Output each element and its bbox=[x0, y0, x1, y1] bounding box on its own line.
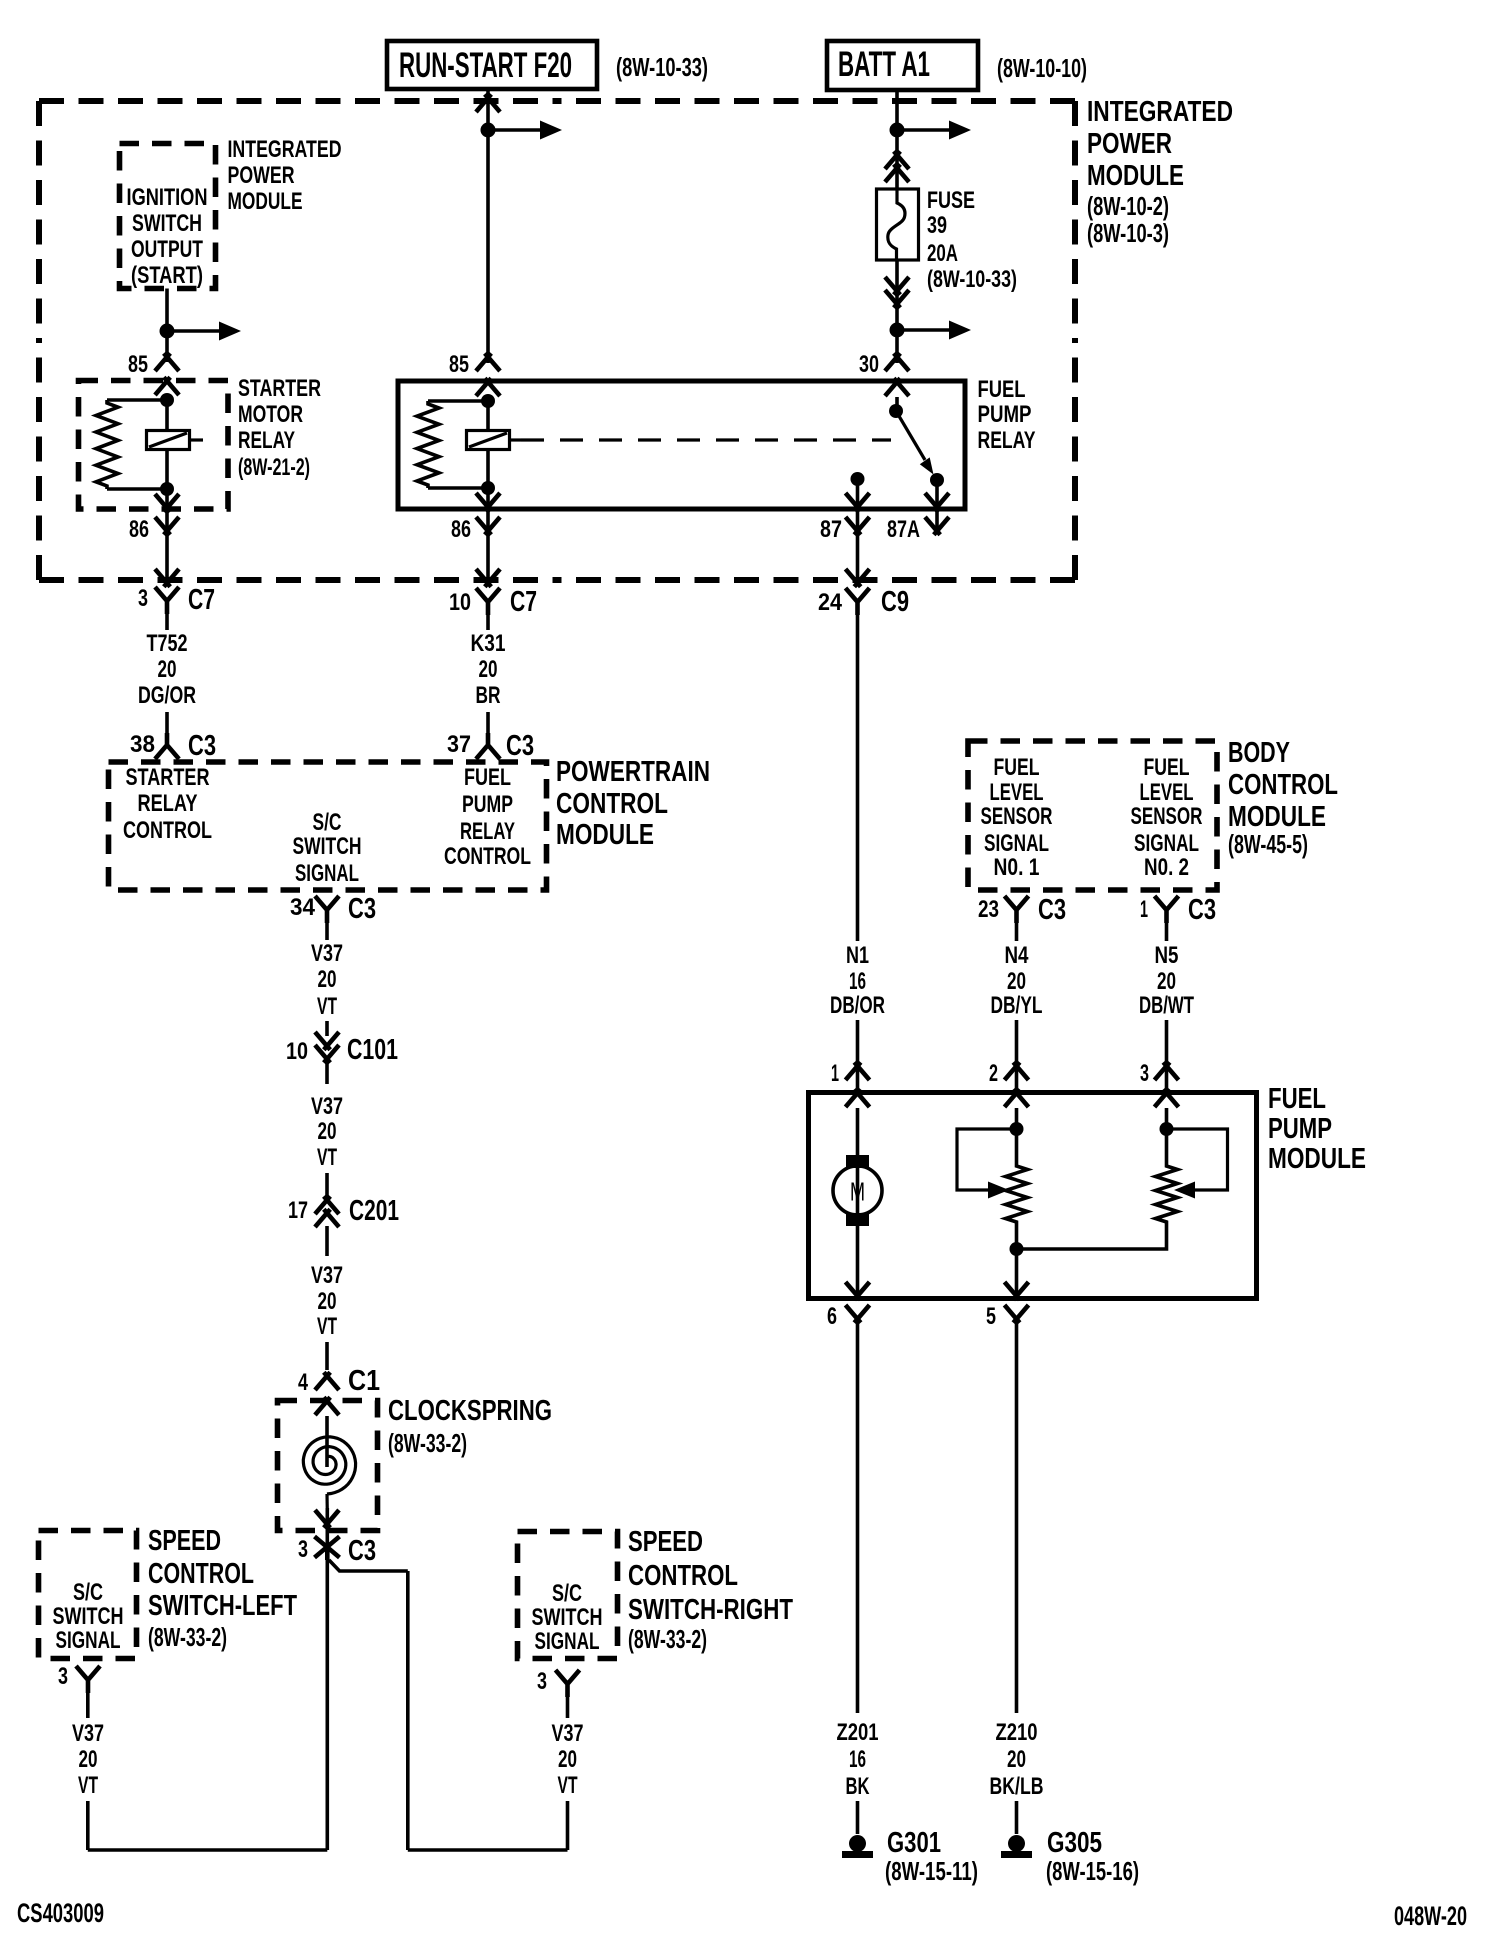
mechanical linkage dashed line bbox=[521, 438, 891, 441]
wire V37 segment to C101 bbox=[325, 1021, 329, 1036]
svg-text:86: 86 bbox=[451, 516, 471, 543]
svg-text:FUEL: FUEL bbox=[994, 754, 1040, 781]
power tag RUN-START F20 box bbox=[387, 41, 597, 89]
wire branch diagonal to right bbox=[329, 1560, 408, 1571]
svg-text:24: 24 bbox=[818, 589, 843, 616]
svg-text:BATT A1: BATT A1 bbox=[838, 45, 930, 84]
junction dot fp relay coil top bbox=[481, 394, 495, 408]
svg-text:39: 39 bbox=[927, 212, 947, 239]
svg-text:SIGNAL: SIGNAL bbox=[1134, 830, 1199, 857]
svg-text:C101: C101 bbox=[347, 1034, 398, 1066]
svg-text:SWITCH: SWITCH bbox=[53, 1603, 124, 1630]
chevron inside fp relay 87A bbox=[925, 493, 940, 511]
connector C3 clockspring symbol bbox=[315, 1537, 340, 1558]
svg-text:MODULE: MODULE bbox=[556, 819, 654, 851]
svg-text:RELAY: RELAY bbox=[138, 790, 198, 817]
inline connector C201 double chevron bbox=[315, 1209, 330, 1227]
arrow chevron at IPM border x167 bbox=[155, 569, 170, 587]
svg-text:POWERTRAIN: POWERTRAIN bbox=[556, 756, 710, 788]
svg-text:5: 5 bbox=[986, 1303, 996, 1330]
chevron inside fp relay bottom left bbox=[476, 493, 491, 511]
svg-text:C7: C7 bbox=[510, 586, 537, 618]
coil slash starter relay bbox=[149, 433, 187, 447]
svg-text:1: 1 bbox=[1140, 896, 1148, 923]
svg-text:10: 10 bbox=[449, 589, 471, 616]
chevron pin 87A below box bbox=[925, 517, 940, 535]
wire T752 lower segment bbox=[165, 712, 169, 736]
chevron inside FPM pin 2 bbox=[1005, 1089, 1020, 1107]
fuel pump motor commutator top bbox=[846, 1155, 869, 1168]
svg-text:20: 20 bbox=[1007, 1746, 1026, 1773]
connector C1 chevron bbox=[315, 1372, 330, 1390]
wire coil bottom dot to box bottom bbox=[165, 489, 169, 534]
wire clockspring C3 down (left branch) bbox=[325, 1557, 329, 1850]
svg-text:V37: V37 bbox=[311, 1093, 343, 1120]
wire S/C left lower segment bbox=[86, 1801, 90, 1850]
chevron pin 86 fp relay bbox=[476, 517, 491, 535]
Integrated Power Module dashed border bbox=[39, 98, 560, 104]
fuel pump relay solid box bbox=[398, 381, 965, 509]
wiper loop sensor 1 bbox=[957, 1129, 1017, 1190]
branch arrow run-start bbox=[488, 128, 540, 132]
svg-text:3: 3 bbox=[58, 1663, 68, 1690]
svg-text:SIGNAL: SIGNAL bbox=[56, 1627, 121, 1654]
wire sensor2 bottom to sensor1 node bbox=[1017, 1225, 1167, 1249]
svg-text:SWITCH-RIGHT: SWITCH-RIGHT bbox=[628, 1594, 793, 1626]
svg-text:SWITCH-LEFT: SWITCH-LEFT bbox=[148, 1590, 297, 1622]
speed control switch-right dashed box bbox=[518, 1532, 618, 1659]
svg-text:G301: G301 bbox=[887, 1827, 941, 1859]
fuel level sensor 1 resistor bbox=[1006, 1163, 1028, 1225]
svg-text:C9: C9 bbox=[881, 586, 909, 618]
wire N4 lower segment bbox=[1015, 1020, 1019, 1090]
wire to fp relay resistor bbox=[428, 399, 488, 403]
wire pin30 to switch pivot bbox=[895, 397, 899, 411]
wire 87 down to IPM border bbox=[856, 534, 860, 580]
svg-text:C3: C3 bbox=[348, 1535, 376, 1567]
svg-text:6: 6 bbox=[827, 1303, 837, 1330]
coil stub fuel pump relay bbox=[510, 438, 522, 441]
svg-text:23: 23 bbox=[978, 896, 999, 923]
svg-text:(8W-33-2): (8W-33-2) bbox=[148, 1622, 227, 1652]
svg-text:FUEL: FUEL bbox=[978, 376, 1026, 403]
svg-text:16: 16 bbox=[849, 968, 866, 995]
svg-text:VT: VT bbox=[78, 1772, 98, 1799]
wire motor to box bottom bbox=[856, 1226, 860, 1298]
svg-text:(8W-15-11): (8W-15-11) bbox=[885, 1856, 978, 1886]
inline connector double chevron above fuse bbox=[885, 164, 900, 182]
inline connector C101 double chevron bbox=[315, 1032, 330, 1050]
wire below C101 bbox=[325, 1062, 329, 1084]
svg-text:85: 85 bbox=[449, 351, 469, 378]
junction dot run-start wire bbox=[481, 123, 496, 138]
inline connector double chevron below fuse bbox=[885, 277, 900, 295]
svg-text:C201: C201 bbox=[349, 1195, 399, 1227]
svg-text:CONTROL: CONTROL bbox=[1228, 769, 1338, 801]
svg-text:POWER: POWER bbox=[228, 162, 295, 189]
chevron pin 6 below FPM bbox=[846, 1305, 861, 1323]
svg-text:C3: C3 bbox=[1188, 894, 1216, 926]
body control module dashed box bbox=[968, 741, 1217, 890]
junction dot below fuse bbox=[890, 323, 905, 338]
svg-text:87A: 87A bbox=[887, 516, 920, 543]
chevron pin 1 FPM bbox=[846, 1062, 861, 1080]
svg-text:(8W-45-5): (8W-45-5) bbox=[1228, 829, 1308, 859]
chevron pin 2 FPM bbox=[1005, 1062, 1020, 1080]
svg-text:048W-20: 048W-20 bbox=[1394, 1901, 1467, 1931]
chevron inside fuel pump relay top left bbox=[476, 378, 491, 396]
svg-text:20: 20 bbox=[479, 656, 498, 683]
svg-text:SPEED: SPEED bbox=[628, 1526, 703, 1558]
svg-text:BK/LB: BK/LB bbox=[990, 1773, 1044, 1800]
clockspring spiral coil bbox=[303, 1437, 355, 1494]
svg-text:20: 20 bbox=[79, 1746, 98, 1773]
wire bottom left horizontal bbox=[88, 1848, 327, 1852]
wire fp coil bottom to box bottom bbox=[486, 488, 490, 534]
svg-text:C1: C1 bbox=[348, 1365, 380, 1397]
wire clockspring to C3 bbox=[325, 1508, 329, 1545]
svg-text:C3: C3 bbox=[1038, 894, 1066, 926]
svg-text:(8W-33-2): (8W-33-2) bbox=[628, 1624, 707, 1654]
wire into clockspring spiral bbox=[325, 1416, 329, 1467]
svg-text:INTEGRATED: INTEGRATED bbox=[1087, 96, 1233, 128]
svg-text:17: 17 bbox=[288, 1197, 308, 1224]
connector C3 pin 37 symbol bbox=[476, 733, 500, 759]
fuse element curve bbox=[888, 189, 905, 260]
connector C3 pin 23 symbol bbox=[1005, 896, 1029, 923]
svg-text:(START): (START) bbox=[131, 262, 203, 289]
starter motor relay dashed box bbox=[79, 381, 229, 510]
wire C9 pin24 down to fuel pump module bbox=[856, 615, 860, 941]
svg-text:20: 20 bbox=[318, 1288, 337, 1315]
svg-text:V37: V37 bbox=[552, 1720, 584, 1747]
wire starter relay pin 86 down to IPM border bbox=[165, 534, 169, 580]
svg-text:PUMP: PUMP bbox=[978, 401, 1032, 428]
coil slash fuel pump relay bbox=[469, 433, 507, 447]
svg-text:S/C: S/C bbox=[313, 809, 342, 836]
arrow chevron at IPM border x857 bbox=[846, 569, 861, 587]
branch arrow to other circuits bbox=[167, 329, 219, 333]
chevron at IPM border run-start wire bbox=[476, 94, 491, 112]
wire 87 to box bottom bbox=[856, 479, 860, 534]
wire ignition switch output to starter relay coil bbox=[165, 289, 169, 363]
svg-text:(8W-10-10): (8W-10-10) bbox=[997, 53, 1087, 83]
junction dot pin 87 bbox=[851, 472, 865, 486]
relay coil box fuel pump relay bbox=[467, 431, 510, 450]
svg-text:CLOCKSPRING: CLOCKSPRING bbox=[388, 1395, 552, 1427]
svg-text:4: 4 bbox=[298, 1369, 308, 1396]
connector symbol S/C right bbox=[556, 1670, 580, 1697]
svg-text:FUEL: FUEL bbox=[464, 764, 511, 791]
wire Z201 to ground stub bbox=[856, 1801, 860, 1834]
chevron inside fuel pump relay pin 30 bbox=[885, 378, 900, 396]
svg-text:CS403009: CS403009 bbox=[17, 1898, 104, 1928]
wire BCM pin23 down bbox=[1015, 923, 1019, 941]
svg-text:SIGNAL: SIGNAL bbox=[984, 830, 1049, 857]
svg-text:CONTROL: CONTROL bbox=[444, 843, 531, 870]
wire pin2 to level sensor 1 bbox=[1015, 1108, 1019, 1163]
svg-text:3: 3 bbox=[1140, 1060, 1149, 1087]
chevron pin 85 starter relay bbox=[155, 353, 170, 371]
svg-text:Z210: Z210 bbox=[996, 1719, 1038, 1746]
wire S/C right down bbox=[566, 1697, 570, 1718]
relay coil box starter relay bbox=[147, 431, 190, 450]
svg-text:PUMP: PUMP bbox=[1268, 1113, 1332, 1145]
svg-text:G305: G305 bbox=[1047, 1827, 1102, 1859]
svg-text:N1: N1 bbox=[846, 942, 869, 969]
resistor starter relay (coil suppression) bbox=[96, 400, 118, 489]
svg-text:MOTOR: MOTOR bbox=[238, 401, 303, 428]
wire S/C right lower segment bbox=[566, 1801, 570, 1850]
svg-text:CONTROL: CONTROL bbox=[556, 788, 668, 820]
junction dot sensor 1 top bbox=[1010, 1122, 1024, 1136]
connector C3 pin 1 symbol bbox=[1155, 896, 1179, 923]
wire fp relay 86 to IPM border bbox=[486, 534, 490, 580]
svg-text:87: 87 bbox=[820, 516, 842, 543]
wire fp coil bottom bbox=[486, 450, 490, 489]
svg-text:SENSOR: SENSOR bbox=[981, 803, 1053, 830]
svg-text:Z201: Z201 bbox=[837, 1719, 879, 1746]
svg-text:VT: VT bbox=[317, 1144, 337, 1171]
svg-text:M: M bbox=[850, 1177, 865, 1207]
svg-text:STARTER: STARTER bbox=[238, 375, 321, 402]
relay switch arm bbox=[896, 411, 925, 460]
chevron inside FPM bottom pin5 bbox=[1005, 1282, 1020, 1300]
svg-text:S/C: S/C bbox=[73, 1579, 103, 1606]
wire K31 lower segment bbox=[486, 712, 490, 736]
svg-text:SIGNAL: SIGNAL bbox=[295, 860, 359, 887]
svg-text:30: 30 bbox=[859, 351, 879, 378]
resistor fuel pump relay bbox=[417, 401, 439, 488]
svg-text:STARTER: STARTER bbox=[126, 764, 210, 791]
svg-text:1: 1 bbox=[831, 1060, 839, 1087]
svg-text:RELAY: RELAY bbox=[460, 818, 515, 845]
wire S/C left down bbox=[86, 1693, 90, 1718]
chevron inside FPM pin 3 bbox=[1155, 1089, 1170, 1107]
svg-text:FUSE: FUSE bbox=[927, 187, 975, 214]
svg-text:N0. 2: N0. 2 bbox=[1144, 854, 1189, 881]
fuel pump motor M1 circle bbox=[833, 1166, 882, 1215]
chevron pin 30 bbox=[885, 353, 900, 371]
svg-text:LEVEL: LEVEL bbox=[1140, 779, 1194, 806]
wire resistor bottom to coil bottom node bbox=[107, 487, 167, 491]
svg-text:CONTROL: CONTROL bbox=[628, 1560, 738, 1592]
svg-text:20: 20 bbox=[558, 1746, 577, 1773]
connector C3 pin 34 symbol bbox=[315, 896, 339, 923]
wire sensor1 bottom bbox=[1015, 1225, 1019, 1298]
svg-text:20: 20 bbox=[158, 656, 177, 683]
svg-text:3: 3 bbox=[298, 1536, 308, 1563]
wire V37 segment to C201 bbox=[325, 1173, 329, 1199]
svg-text:20: 20 bbox=[1007, 968, 1026, 995]
branch arrow below fuse bbox=[897, 328, 949, 332]
chevron inside starter relay top bbox=[155, 377, 170, 395]
wiper loop sensor 2 bbox=[1167, 1129, 1228, 1190]
svg-text:(8W-10-3): (8W-10-3) bbox=[1087, 218, 1169, 248]
ignition switch output (start) dashed box bbox=[120, 144, 216, 289]
junction dot pin 87A bbox=[930, 473, 944, 487]
ground G305 symbol bbox=[1008, 1835, 1025, 1852]
wire RUN-START F20 down to fuel pump relay bbox=[486, 89, 490, 363]
wire V37 segment to C1 bbox=[325, 1342, 329, 1370]
svg-text:MODULE: MODULE bbox=[1087, 160, 1184, 192]
svg-text:CONTROL: CONTROL bbox=[148, 1558, 254, 1590]
svg-text:PUMP: PUMP bbox=[462, 791, 513, 818]
junction dot fp relay coil bottom bbox=[481, 481, 495, 495]
svg-text:C3: C3 bbox=[188, 730, 216, 762]
connector C7 pin 10 symbol bbox=[476, 588, 500, 615]
fuse F39 box bbox=[877, 189, 919, 260]
svg-text:20: 20 bbox=[1157, 968, 1176, 995]
junction dot starter relay coil top bbox=[160, 393, 174, 407]
chevron inside fp relay 87 bbox=[846, 493, 861, 511]
svg-text:VT: VT bbox=[317, 1313, 337, 1340]
wire C3 pin34 stub bbox=[325, 923, 329, 940]
svg-text:3: 3 bbox=[537, 1668, 547, 1695]
svg-text:RUN-START F20: RUN-START F20 bbox=[399, 46, 572, 85]
svg-text:16: 16 bbox=[849, 1746, 866, 1773]
wire bottom right horizontal bbox=[408, 1848, 568, 1852]
svg-text:3: 3 bbox=[138, 585, 148, 612]
fuel level sensor 2 resistor bbox=[1156, 1163, 1178, 1225]
svg-text:DB/WT: DB/WT bbox=[1139, 992, 1194, 1019]
svg-text:MODULE: MODULE bbox=[228, 188, 303, 215]
wire FPM pin6 down to ground bbox=[856, 1322, 860, 1713]
svg-text:SWITCH: SWITCH bbox=[132, 210, 202, 237]
svg-text:MODULE: MODULE bbox=[1268, 1143, 1366, 1175]
svg-text:T752: T752 bbox=[147, 630, 188, 657]
svg-text:N5: N5 bbox=[1155, 942, 1179, 969]
ground G301 symbol bbox=[849, 1835, 866, 1852]
wire fuel pump relay coil top bbox=[486, 397, 490, 431]
svg-text:DB/YL: DB/YL bbox=[991, 992, 1043, 1019]
wire below C201 bbox=[325, 1226, 329, 1256]
svg-text:N4: N4 bbox=[1005, 942, 1030, 969]
svg-text:S/C: S/C bbox=[552, 1580, 582, 1607]
svg-text:20: 20 bbox=[318, 966, 337, 993]
svg-text:10: 10 bbox=[286, 1038, 308, 1065]
chevron pin 3 FPM bbox=[1155, 1062, 1170, 1080]
svg-text:VT: VT bbox=[317, 993, 337, 1020]
fuel pump motor commutator bottom bbox=[846, 1213, 869, 1226]
svg-text:(8W-33-2): (8W-33-2) bbox=[388, 1428, 467, 1458]
svg-text:20: 20 bbox=[318, 1118, 337, 1145]
svg-text:SPEED: SPEED bbox=[148, 1525, 221, 1557]
chevron pin 86 starter relay bbox=[155, 517, 170, 535]
chevron pin 5 below FPM bbox=[1005, 1305, 1020, 1323]
svg-text:38: 38 bbox=[130, 731, 155, 758]
svg-text:VT: VT bbox=[558, 1772, 578, 1799]
svg-text:(8W-10-2): (8W-10-2) bbox=[1087, 191, 1169, 221]
clockspring spiral exit to lower wire bbox=[325, 1494, 328, 1512]
wire to resistor top bbox=[107, 398, 167, 402]
wire coil bottom to pin 86 bbox=[165, 450, 169, 490]
junction dot on ignition output wire bbox=[160, 324, 175, 339]
chevron inside FPM bottom pin6 bbox=[846, 1282, 861, 1300]
branch arrow battery feed bbox=[897, 128, 949, 132]
wire fuse to fuel pump relay pin 30 bbox=[895, 260, 899, 363]
junction dot battery feed bbox=[890, 123, 905, 138]
wire fp resistor bottom bbox=[428, 486, 488, 490]
svg-text:INTEGRATED: INTEGRATED bbox=[228, 136, 342, 163]
svg-text:K31: K31 bbox=[471, 630, 506, 657]
svg-text:N0. 1: N0. 1 bbox=[994, 854, 1040, 881]
wire stub below C7 bbox=[165, 614, 169, 630]
svg-text:(8W-10-33): (8W-10-33) bbox=[927, 266, 1017, 293]
connector C9 pin 24 symbol bbox=[846, 588, 870, 615]
chevron pin 87 below box bbox=[846, 517, 861, 535]
svg-text:IGNITION: IGNITION bbox=[127, 184, 208, 211]
svg-text:FUEL: FUEL bbox=[1268, 1083, 1326, 1115]
svg-text:(8W-21-2): (8W-21-2) bbox=[238, 454, 310, 481]
svg-text:(8W-10-33): (8W-10-33) bbox=[616, 52, 708, 82]
power tag BATT A1 box bbox=[827, 41, 978, 90]
svg-text:POWER: POWER bbox=[1087, 128, 1172, 160]
svg-text:85: 85 bbox=[128, 351, 148, 378]
svg-text:RELAY: RELAY bbox=[978, 427, 1036, 454]
arrow chevron at IPM border x488 bbox=[476, 569, 491, 587]
speed control switch-left dashed box bbox=[39, 1531, 137, 1659]
wire right branch vertical bbox=[406, 1571, 410, 1850]
svg-text:20A: 20A bbox=[927, 240, 958, 267]
svg-text:2: 2 bbox=[989, 1060, 998, 1087]
coil stub starter relay bbox=[190, 438, 204, 441]
wire stub below C7 pin10 bbox=[486, 615, 490, 630]
fuel pump module solid box bbox=[809, 1093, 1257, 1299]
arrow chevron clockspring bottom bbox=[315, 1510, 330, 1528]
chevron pin 85 fuel pump relay bbox=[476, 353, 491, 371]
svg-text:V37: V37 bbox=[311, 1262, 343, 1289]
svg-text:37: 37 bbox=[447, 731, 471, 758]
connector C3 pin 38 symbol bbox=[155, 733, 179, 759]
chevron inside clockspring top bbox=[315, 1397, 330, 1415]
svg-text:(8W-15-16): (8W-15-16) bbox=[1046, 1856, 1139, 1886]
svg-text:RELAY: RELAY bbox=[238, 427, 295, 454]
svg-text:DB/OR: DB/OR bbox=[830, 992, 885, 1019]
wire FPM pin5 down to ground bbox=[1015, 1322, 1019, 1713]
wire N1 lower segment bbox=[856, 1020, 860, 1090]
svg-text:CONTROL: CONTROL bbox=[123, 817, 212, 844]
svg-text:34: 34 bbox=[290, 894, 316, 921]
wire pin1 to motor bbox=[856, 1108, 860, 1213]
junction dot starter relay coil bottom bbox=[160, 482, 174, 496]
svg-text:SENSOR: SENSOR bbox=[1131, 803, 1203, 830]
connector symbol S/C left bbox=[76, 1666, 100, 1693]
junction dot sensor 2 top bbox=[1160, 1122, 1174, 1136]
svg-text:V37: V37 bbox=[311, 940, 343, 967]
svg-text:LEVEL: LEVEL bbox=[990, 779, 1044, 806]
clockspring dashed box bbox=[278, 1401, 378, 1531]
svg-text:V37: V37 bbox=[72, 1720, 104, 1747]
svg-text:C3: C3 bbox=[348, 893, 376, 925]
wire pin3 to level sensor 2 bbox=[1165, 1108, 1169, 1163]
junction dot sensor bottom node bbox=[1010, 1242, 1024, 1256]
connector C7 pin 3 symbol bbox=[155, 587, 179, 614]
svg-text:BK: BK bbox=[846, 1773, 870, 1800]
chevron inside starter relay bottom bbox=[155, 494, 170, 512]
wire 87A to box bottom bbox=[935, 480, 939, 534]
svg-text:C7: C7 bbox=[188, 584, 215, 616]
svg-text:FUEL: FUEL bbox=[1144, 754, 1190, 781]
svg-text:BODY: BODY bbox=[1228, 737, 1290, 769]
wire BCM pin1 down bbox=[1165, 923, 1169, 941]
svg-text:BR: BR bbox=[476, 682, 501, 709]
wire Z210 to ground stub bbox=[1015, 1801, 1019, 1834]
svg-text:OUTPUT: OUTPUT bbox=[131, 236, 203, 263]
wire N5 lower segment bbox=[1165, 1020, 1169, 1090]
svg-text:SIGNAL: SIGNAL bbox=[535, 1628, 600, 1655]
junction dot switch pivot bbox=[889, 404, 903, 418]
